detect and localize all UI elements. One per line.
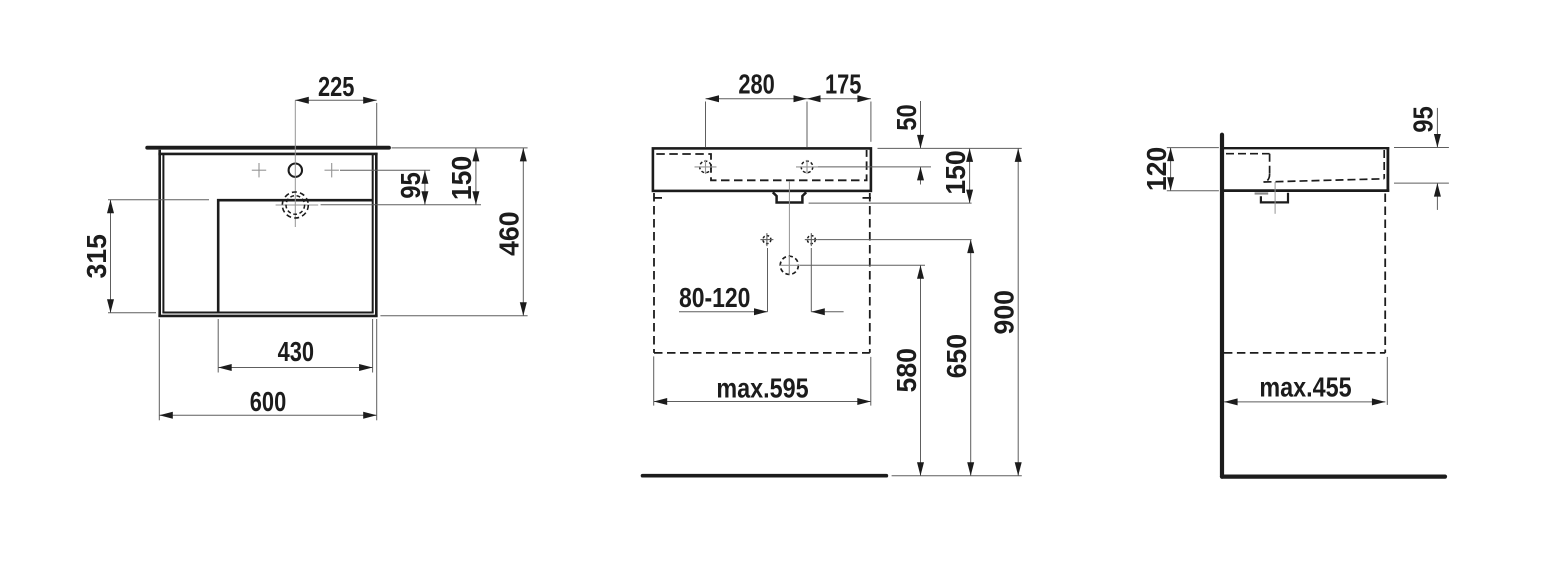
svg-text:max.455: max.455: [1259, 373, 1351, 403]
svg-text:80-120: 80-120: [679, 283, 750, 314]
svg-text:600: 600: [250, 386, 286, 417]
svg-text:580: 580: [890, 348, 922, 392]
svg-text:900: 900: [988, 290, 1020, 334]
svg-text:95: 95: [394, 172, 426, 198]
svg-text:650: 650: [940, 334, 972, 378]
svg-text:460: 460: [493, 212, 525, 256]
svg-text:315: 315: [80, 234, 112, 278]
svg-text:95: 95: [1407, 106, 1439, 132]
svg-text:430: 430: [278, 336, 314, 367]
svg-text:225: 225: [318, 71, 354, 102]
svg-text:50: 50: [890, 104, 922, 130]
svg-text:120: 120: [1140, 147, 1172, 191]
svg-text:150: 150: [446, 156, 478, 200]
svg-text:175: 175: [825, 69, 861, 100]
svg-text:280: 280: [738, 69, 774, 100]
svg-text:max.595: max.595: [716, 374, 808, 404]
svg-text:150: 150: [939, 150, 971, 194]
